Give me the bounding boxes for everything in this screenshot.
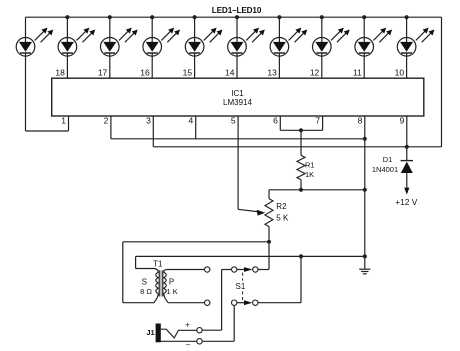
LED9 xyxy=(362,15,366,19)
svg-text:J1: J1 xyxy=(146,328,154,337)
svg-text:1 K: 1 K xyxy=(166,287,177,296)
svg-text:T1: T1 xyxy=(153,259,163,268)
wire R2 bottom lead xyxy=(268,227,270,242)
svg-text:R2: R2 xyxy=(276,202,287,211)
node line A - pin 8 xyxy=(363,137,367,141)
svg-text:18: 18 xyxy=(55,68,65,78)
wire P top lead xyxy=(167,269,204,271)
wire J1 sleeve lead xyxy=(160,340,197,342)
svg-text:3: 3 xyxy=(146,115,151,125)
svg-text:S: S xyxy=(142,277,147,286)
wire S1 lower throw to ground line xyxy=(258,302,301,304)
S1 lower arrowhead xyxy=(244,300,252,305)
wire ground line row xyxy=(136,255,365,257)
resistor R2 5K xyxy=(265,199,273,227)
node R2 bottom xyxy=(267,240,271,244)
wire LED4 cathode to pin 16 xyxy=(151,56,153,78)
svg-text:IC1: IC1 xyxy=(231,89,244,98)
wire pin6-pin7 bracket xyxy=(280,129,322,131)
ground xyxy=(364,256,366,268)
wire pin 9 stub xyxy=(406,116,408,147)
svg-text:LM3914: LM3914 xyxy=(223,98,252,107)
transformer T1 primary P winding xyxy=(164,270,168,303)
wire pin 4 stub xyxy=(195,116,197,139)
wire wiper arm xyxy=(238,209,258,212)
svg-text:5: 5 xyxy=(231,115,236,125)
LED7 xyxy=(277,15,281,19)
jack J1 tip contact xyxy=(161,329,197,338)
S1 upper arrowhead xyxy=(244,267,252,272)
S1 lower blade xyxy=(237,302,244,304)
wire LED10 cathode to pin 10 xyxy=(406,56,408,78)
terminal S1 lower throw xyxy=(253,300,258,305)
wire LED5 cathode to pin 15 xyxy=(194,56,196,78)
wire pin 1 stub xyxy=(68,116,70,131)
node pin8 - ground line xyxy=(363,254,367,258)
svg-text:2: 2 xyxy=(104,115,109,125)
terminal J1 plus xyxy=(197,328,202,333)
S1 upper blade xyxy=(237,269,244,271)
LED3 xyxy=(108,15,112,19)
svg-text:1K: 1K xyxy=(305,170,314,179)
svg-text:11: 11 xyxy=(353,68,362,78)
terminal P bottom xyxy=(205,300,210,305)
svg-text:7: 7 xyxy=(315,115,320,125)
wire J1 minus to S1 lower pole xyxy=(202,340,234,342)
wire loop top (R2 bottom to left) xyxy=(123,241,269,243)
svg-text:12: 12 xyxy=(310,68,320,78)
wire pin 6 stub xyxy=(279,116,281,130)
op-amp U1 IC1 LM3914 body xyxy=(52,78,424,116)
S1 gang link xyxy=(242,273,244,281)
svg-text:6: 6 xyxy=(273,115,278,125)
wire pin 8 to ground xyxy=(364,116,366,256)
node line B - pin 9 / D1 xyxy=(405,145,409,149)
svg-text:P: P xyxy=(169,277,174,286)
wire R2 top lead xyxy=(268,190,270,199)
wire P bottom lead xyxy=(168,302,204,304)
LED10 xyxy=(405,15,409,19)
wire +V line B xyxy=(153,146,441,148)
svg-text:LED1–LED10: LED1–LED10 xyxy=(212,6,262,15)
wire pin 5 to wiper xyxy=(237,116,239,209)
wire LED9 cathode to pin 11 xyxy=(363,56,365,78)
svg-text:8: 8 xyxy=(358,115,363,125)
wire to pin 1 xyxy=(26,130,69,132)
wire S winding bottom lead xyxy=(123,302,154,304)
wire right +V vertical xyxy=(441,17,443,147)
terminal S1 lower pole xyxy=(232,300,237,305)
svg-text:D1: D1 xyxy=(383,155,393,164)
terminal S1 upper throw xyxy=(253,267,258,272)
svg-text:1N4001: 1N4001 xyxy=(372,165,398,174)
wire pin 7 stub xyxy=(322,116,324,130)
terminal P top xyxy=(205,267,210,272)
node R1 bottom xyxy=(299,188,303,192)
R2 wiper arrowhead xyxy=(257,210,266,216)
svg-text:5 K: 5 K xyxy=(276,214,289,223)
svg-text:17: 17 xyxy=(98,68,108,78)
+12V supply arrow xyxy=(404,188,409,195)
wire pin 3 stub xyxy=(152,116,154,147)
svg-text:R1: R1 xyxy=(305,161,315,170)
terminal J1 minus xyxy=(197,339,202,344)
terminal S1 upper pole xyxy=(232,267,237,272)
wire loop left vertical xyxy=(122,242,124,303)
transformer T1 secondary S winding xyxy=(154,269,158,303)
node ground line - S1 lower throw xyxy=(299,254,303,258)
LED8 xyxy=(320,15,324,19)
LED2 xyxy=(65,15,69,19)
node row C - pin 8 xyxy=(363,188,367,192)
svg-text:14: 14 xyxy=(225,68,235,78)
wire pin 2 stub xyxy=(110,116,112,139)
wire ground bus line A xyxy=(111,138,365,140)
svg-text:13: 13 xyxy=(267,68,277,78)
wire LED6 cathode to pin 14 xyxy=(236,56,238,78)
wire LED7 cathode to pin 13 xyxy=(278,56,280,78)
svg-text:+12 V: +12 V xyxy=(395,197,418,207)
svg-text:1: 1 xyxy=(61,115,66,125)
wire LED3 cathode to pin 17 xyxy=(109,56,111,78)
svg-text:S1: S1 xyxy=(236,282,246,291)
wire S1 upper throw to R2 bottom xyxy=(258,269,269,271)
svg-text:4: 4 xyxy=(188,115,193,125)
wire R1 bottom lead xyxy=(300,180,302,190)
wire LED1 cathode down xyxy=(25,56,27,131)
svg-text:+: + xyxy=(185,320,190,329)
svg-text:15: 15 xyxy=(183,68,193,78)
transformer T1 core xyxy=(160,270,162,296)
wire LED8 cathode to pin 12 xyxy=(321,56,323,78)
svg-text:8 Ω: 8 Ω xyxy=(140,287,152,296)
svg-text:10: 10 xyxy=(395,68,405,78)
node bracket - R1 tap xyxy=(299,128,303,132)
diode D1 1N4001 xyxy=(406,147,408,161)
LED6 xyxy=(235,15,239,19)
LED1 xyxy=(25,17,27,42)
wire J1 plus to S1 upper pole xyxy=(202,329,221,331)
svg-text:–: – xyxy=(186,340,191,349)
wire LED2 cathode to pin 18 xyxy=(66,56,68,78)
jack J1 sleeve xyxy=(156,324,161,343)
svg-text:16: 16 xyxy=(140,68,150,78)
wire S top jog xyxy=(136,268,155,270)
LED5 xyxy=(193,15,197,19)
LED4 xyxy=(150,15,154,19)
resistor R1 xyxy=(297,155,305,179)
wire R1 top lead xyxy=(300,130,302,155)
svg-text:9: 9 xyxy=(400,115,405,125)
wire R1/R2/pin8 row xyxy=(269,189,365,191)
wire +V top rail xyxy=(26,16,442,18)
